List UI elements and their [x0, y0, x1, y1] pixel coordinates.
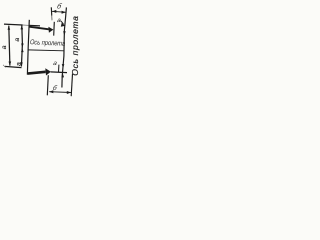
dimension b (top)	[52, 11, 67, 12]
wire bottom horizontal thin line	[51, 71, 67, 74]
wire axis S (bottom right short vertical)	[71, 74, 72, 96]
wire short vertical stub (mid bottom)	[58, 65, 60, 73]
dimension line a/a (left chain 2, split)	[21, 25, 22, 66]
svg-text:а: а	[16, 62, 23, 66]
noise specks	[3, 65, 4, 66]
svg-text:Ось пролета: Ось пролета	[70, 16, 80, 76]
svg-text:а: а	[1, 45, 8, 49]
svg-text:а: а	[14, 38, 21, 42]
leader arrow (small, to axis R)	[60, 21, 63, 25]
wire middle horizontal line	[28, 49, 64, 52]
node line L2 (axis stub pointed by leader)	[53, 22, 56, 36]
wire bottom vertical extension line	[47, 75, 48, 95]
node line L1 (top axis stub)	[50, 7, 52, 15]
leader arrow (bottom, thick)	[45, 68, 51, 75]
leader arrow (top, thick)	[29, 27, 49, 30]
wire top-left object line	[4, 23, 23, 26]
svg-text:б: б	[56, 2, 63, 11]
wire bottom-left object line	[5, 66, 22, 67]
wire axis R (span axis, long leaning vertical)	[62, 7, 67, 87]
arrowhead pair at crossing (axis R at bottom line)	[62, 64, 65, 68]
wire long left object line with corner	[27, 20, 45, 74]
arrowhead down on axis R (mid)	[63, 31, 66, 35]
svg-text:а: а	[53, 60, 58, 67]
dimension b (bottom)	[49, 91, 71, 94]
dimension line a (left chain 1)	[9, 26, 10, 66]
svg-text:Ось пролета: Ось пролета	[30, 39, 66, 48]
svg-text:б: б	[52, 84, 58, 92]
